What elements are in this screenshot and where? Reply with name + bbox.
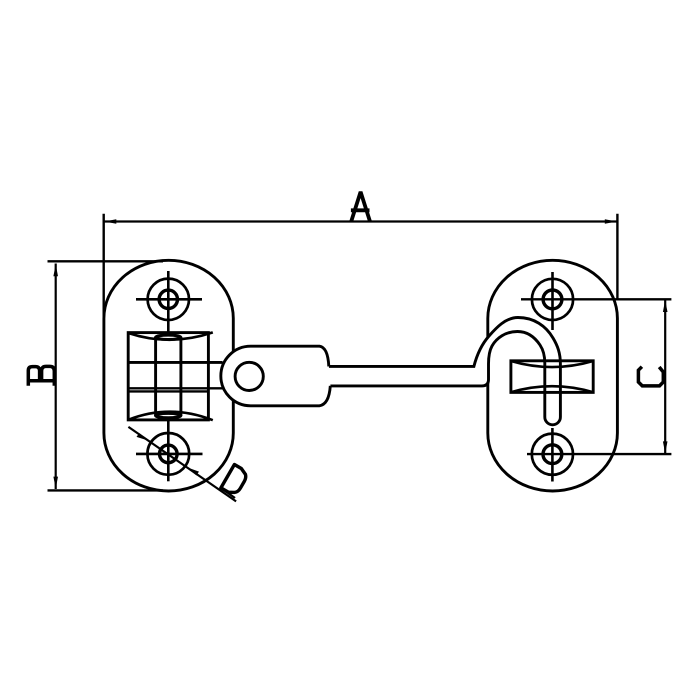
dimension D arrow lower (points at hole from outside) (187, 467, 199, 475)
dimension A extension line right (616, 214, 618, 300)
dimension C arrow bottom (663, 441, 668, 453)
dimension C extension line top (521, 298, 671, 300)
dimension D arrow upper (points at hole from outside) (137, 433, 149, 441)
hinge strap top line (128, 361, 222, 364)
staple catch rectangle (511, 361, 593, 393)
left plate bottom screw hole crosshair vertical (167, 418, 170, 481)
hinge pin right edge (179, 337, 182, 416)
right mounting plate outline (488, 260, 618, 491)
left plate top screw hole outer circle (148, 279, 189, 320)
staple top concave edge (511, 361, 593, 367)
left plate top screw hole crosshair vertical (167, 271, 170, 336)
hinge bottom knuckle top edge (128, 390, 209, 392)
right plate top screw hole outer circle (532, 279, 573, 320)
left plate bottom screw hole outer circle (147, 433, 189, 475)
label A (351, 192, 370, 221)
hinge block outer rectangle (128, 333, 208, 420)
hinge pin left edge (154, 337, 157, 416)
hinge strap bottom line (128, 387, 222, 389)
label D (221, 465, 249, 497)
hinge bottom knuckle concave edge (128, 412, 213, 421)
hook eye tab (capsule end) (221, 346, 330, 406)
hinge top knuckle concave edge (128, 332, 213, 339)
left plate bottom screw hole crosshair horizontal (136, 453, 203, 456)
left plate top screw hole crosshair horizontal (136, 298, 202, 301)
dimension C extension line bottom (527, 453, 671, 455)
label B (28, 366, 55, 385)
dimension B extension line top (48, 260, 164, 262)
left plate bottom screw hole inner circle (160, 445, 178, 463)
dimension B line (55, 264, 57, 490)
staple bottom concave edge (511, 386, 593, 392)
dimension A arrow right (605, 219, 617, 224)
hinge pin top ellipse (156, 335, 181, 339)
dimension B extension line bottom (48, 489, 164, 491)
hinge pin bottom ellipse (156, 413, 181, 417)
dimension B arrow top (53, 264, 58, 276)
dimension C line (664, 299, 666, 454)
right plate bottom screw hole inner circle (543, 445, 562, 464)
dimension B arrow bottom (53, 477, 58, 489)
label C (638, 367, 663, 386)
left mounting plate outline (104, 260, 233, 491)
right plate top screw hole crosshair vertical (551, 272, 554, 330)
dimension A line (104, 220, 618, 222)
hook body (rod, crook, shank, tip) (329, 318, 561, 425)
right plate bottom screw hole crosshair vertical (551, 428, 554, 482)
dimension A extension line left (102, 214, 104, 322)
dimension A arrow left (104, 219, 116, 224)
right plate bottom screw hole outer circle (532, 434, 573, 475)
dimension D leader line (128, 427, 236, 502)
hook eye tab hole (235, 362, 263, 390)
dimension D text shelf line (220, 487, 235, 498)
dimension C arrow top (663, 300, 668, 312)
right plate top screw hole inner circle (543, 290, 562, 309)
left plate top screw hole inner circle (159, 290, 177, 308)
